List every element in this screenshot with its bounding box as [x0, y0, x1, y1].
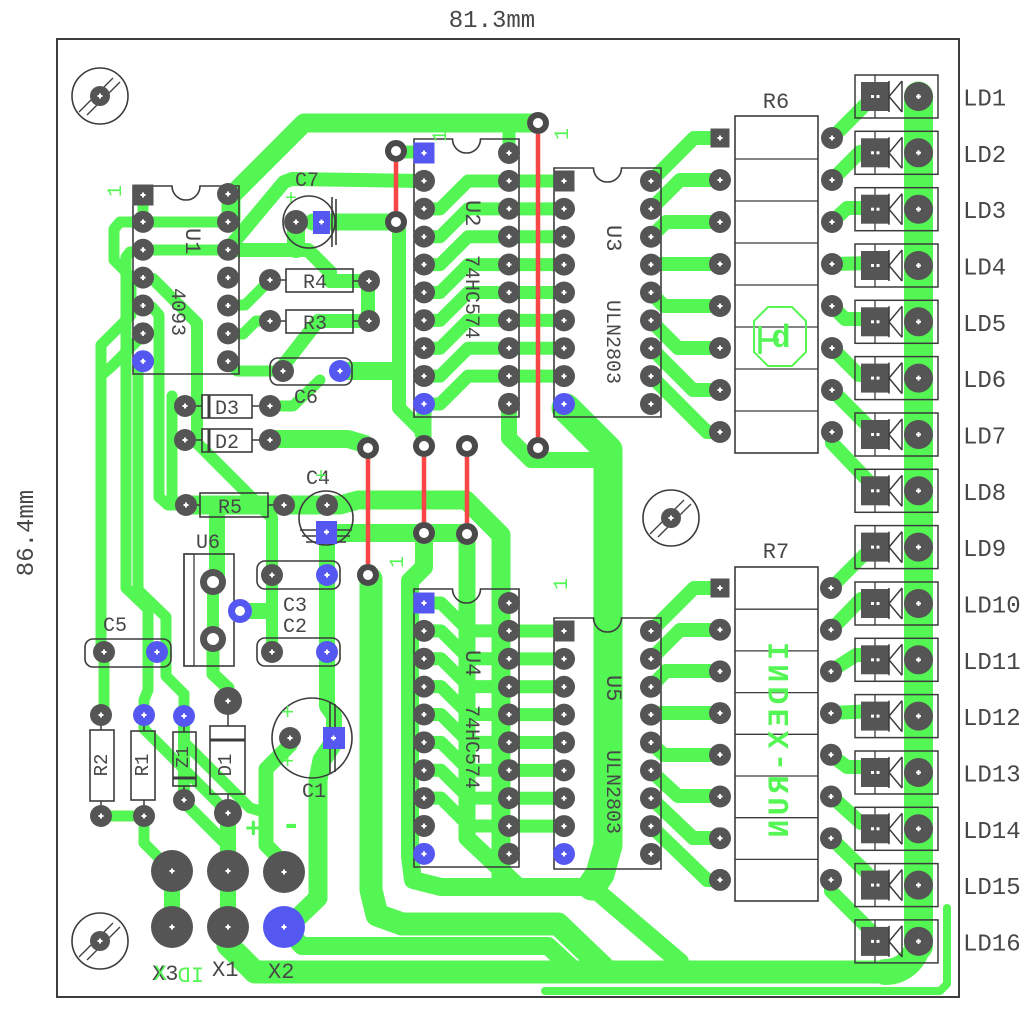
svg-text:C5: C5	[103, 615, 127, 638]
capacitor C4 stripes	[300, 530, 352, 542]
wire U1 row6 diagonal	[104, 335, 143, 373]
U1 pin 1	[133, 185, 154, 206]
jumper end pad	[413, 522, 435, 544]
R6 left pin	[709, 253, 731, 275]
wire U4-U5 row connect	[509, 708, 564, 721]
Z1 pad 2	[173, 789, 195, 811]
U5 pin	[640, 815, 662, 837]
wire D3 left stub	[174, 401, 182, 411]
wire U2 pin20 stub up	[503, 123, 516, 153]
U2 pin	[498, 226, 520, 248]
svg-text:74HC574: 74HC574	[459, 705, 482, 789]
wire U2 internal	[424, 376, 509, 404]
U4 pin	[413, 815, 435, 837]
D3 pad 2	[259, 395, 281, 417]
resistor R3	[286, 310, 353, 333]
R7 cell divider	[735, 775, 818, 777]
U2 pin 1 (blue)	[414, 143, 435, 164]
LED LD16	[855, 920, 938, 963]
C3 pad 2 (blue)	[316, 564, 338, 586]
wire U2-U3 row connect	[509, 230, 564, 243]
R6 cell divider	[735, 158, 818, 160]
wire U2-U3 row connect	[509, 370, 564, 383]
svg-text:LD12: LD12	[963, 706, 1021, 733]
wire U4-U5 row connect	[509, 652, 564, 665]
U2 pin	[498, 198, 520, 220]
U4 pin	[413, 676, 435, 698]
U4 pin	[413, 703, 435, 725]
svg-text:LD9: LD9	[963, 537, 1006, 564]
U2 pin	[498, 281, 520, 303]
wire U4-U5 row connect	[509, 764, 564, 777]
U2 pin	[413, 253, 435, 275]
C6 pad 2 (blue)	[329, 360, 351, 382]
U5 pin	[640, 648, 662, 670]
wire C4 blue chain down	[319, 536, 335, 652]
U2 pin	[498, 365, 520, 387]
R7 right pin	[820, 869, 842, 891]
wire U6 to D1	[213, 640, 228, 700]
wire U3 to R6 fan	[651, 264, 720, 265]
R6 cell divider	[735, 200, 818, 202]
wire U5 to R7 fan	[651, 771, 720, 796]
R7 cell divider	[735, 650, 818, 652]
wire via240 link	[240, 603, 270, 619]
LED LD2	[855, 131, 938, 174]
svg-text:LD15: LD15	[963, 875, 1021, 902]
U1 pin	[217, 183, 239, 205]
R6 right pin	[821, 253, 843, 275]
logo octagon	[754, 307, 806, 366]
wire U3 to R6 fan	[651, 293, 720, 306]
wire U2 internal	[424, 320, 509, 348]
U4 pin	[498, 620, 520, 642]
U1 pin	[132, 239, 154, 261]
svg-text:D1: D1	[215, 754, 237, 777]
R6 left pin	[709, 337, 731, 359]
svg-text:U1: U1	[179, 228, 204, 254]
capacitor C1 stripe	[330, 702, 335, 774]
resistor network R6 outline	[735, 116, 818, 453]
D1 cathode bar	[210, 739, 245, 742]
R7 cell divider	[735, 817, 818, 819]
R7 left pin	[709, 702, 731, 724]
U6 pad 2	[200, 626, 226, 652]
svg-text:LD16: LD16	[963, 931, 1021, 958]
R3 pad 2	[358, 310, 380, 332]
C2 pad 2 (blue)	[316, 641, 338, 663]
wire U2-U3 row connect	[509, 286, 564, 299]
silk INDEX-RUN mirrored	[764, 642, 798, 842]
C7 positive pad (blue)	[313, 211, 330, 234]
wire U4 internal	[424, 631, 509, 659]
U5 pin	[640, 843, 662, 865]
wire C4 blue to ring424	[327, 524, 466, 542]
mounting hole top-left	[72, 68, 128, 124]
Z1 lead lines	[183, 716, 185, 800]
wire U4 internal	[424, 687, 509, 715]
wire Z1 underbody	[178, 716, 190, 798]
capacitor C1 outline	[272, 698, 352, 778]
wire U2 internal	[424, 292, 509, 320]
R6 left pin	[709, 169, 731, 191]
svg-text:4093: 4093	[165, 288, 188, 336]
svg-text:+: +	[315, 466, 327, 489]
U1 pin	[132, 211, 154, 233]
wire jumper (red)	[465, 446, 470, 534]
U3 pin	[553, 337, 575, 359]
wire y179 band U1 to U2	[228, 179, 422, 249]
wire P_D U1 row4 to C3 drop	[143, 279, 272, 652]
wire U3 to R6 fan	[651, 180, 720, 209]
capacitor C3	[257, 561, 340, 589]
R1 pad 2	[133, 805, 155, 827]
wire U2 blue to ring424	[417, 404, 432, 443]
wire R6 to LD8	[832, 432, 874, 487]
R6 right pin	[821, 169, 843, 191]
U3 pin	[640, 198, 662, 220]
U1 pin	[217, 239, 239, 261]
svg-text:1: 1	[551, 578, 574, 590]
D3 pad 1	[174, 395, 196, 417]
wire D3-D2 vertical link	[172, 396, 180, 505]
connector X1 pad b	[207, 906, 249, 948]
wire jumper (red)	[366, 448, 371, 575]
D3 lead lines	[185, 405, 270, 407]
wire U4 internal	[424, 603, 509, 631]
op-amp U1 body	[133, 186, 239, 374]
resistor R4	[286, 269, 353, 292]
R7 right pin	[820, 786, 842, 808]
svg-text:+: +	[285, 188, 297, 211]
wire D2 left stub	[174, 435, 182, 445]
LED LD5	[855, 300, 938, 343]
LED LD10	[855, 582, 938, 625]
U2 pin	[498, 170, 520, 192]
svg-text:1: 1	[105, 185, 128, 197]
wire V_A ring368 down to bus	[371, 579, 606, 970]
wire y222 band C7 to ring	[313, 214, 391, 231]
R3 pad 1	[259, 310, 281, 332]
wire U2 internal	[424, 348, 509, 376]
U4 pin	[498, 843, 520, 865]
svg-text:LD14: LD14	[963, 819, 1021, 846]
wire U5 to R7 fan	[651, 798, 720, 838]
wire y251 band U1 to R4	[228, 250, 367, 281]
wire U6 pads link	[207, 582, 219, 637]
wire R7 to LD13	[831, 755, 875, 767]
connector X2 pad b (blue)	[263, 906, 305, 948]
wire U1 row3 horizontal	[143, 245, 228, 256]
wire R7 to LD14	[831, 796, 875, 823]
wire U2 internal	[424, 265, 509, 293]
wire U2 internal	[424, 181, 509, 209]
svg-text:1: 1	[430, 130, 453, 142]
R7 cell divider	[735, 608, 818, 610]
R1 pad 1 (blue)	[133, 704, 155, 726]
wire Z1 bottom diag to X1	[184, 802, 226, 844]
zener Z1	[173, 732, 196, 786]
D2 lead lines	[185, 439, 270, 441]
R4 lead lines	[270, 280, 369, 281]
R7 cell divider	[735, 858, 818, 860]
U4 pin	[498, 703, 520, 725]
wire blue184 diag	[184, 716, 264, 812]
svg-text:ULN2803: ULN2803	[600, 750, 623, 834]
jumper end pad	[527, 437, 549, 459]
R6 left pin	[709, 295, 731, 317]
U2 pin	[413, 337, 435, 359]
D2 pad 2	[259, 429, 281, 451]
R1 lead lines	[143, 715, 145, 816]
svg-text:LD6: LD6	[963, 368, 1006, 395]
svg-text:INDEX-RUN: INDEX-RUN	[764, 642, 798, 842]
flip-flop U4 body	[414, 589, 519, 867]
svg-text:81.3mm: 81.3mm	[449, 8, 535, 35]
wire R6 to LD6	[832, 348, 874, 375]
C5 pad 2 (blue)	[146, 641, 168, 663]
capacitor C2	[257, 638, 340, 666]
connector X2 pad a	[263, 851, 305, 893]
U3 pin	[553, 254, 575, 276]
wire bottom thin trace	[545, 908, 947, 991]
svg-text:C1: C1	[302, 781, 326, 804]
capacitor C6	[270, 358, 352, 385]
wire D3 left stub2	[172, 401, 181, 411]
R6 right pin	[821, 379, 843, 401]
wire U4 internal	[424, 659, 509, 687]
LED LD14	[855, 807, 938, 850]
wire jumper (red)	[536, 123, 541, 448]
wire W4 ring424 through U4	[410, 535, 680, 962]
U5 pin	[640, 731, 662, 753]
R5 pad 2	[273, 494, 295, 516]
wire C1 minus to X2	[266, 745, 290, 863]
R7 left pin	[709, 786, 731, 808]
R7 right pin	[820, 744, 842, 766]
R3 lead lines	[270, 320, 369, 322]
wire U3 to R6 fan	[651, 348, 720, 390]
D2 pad 1	[174, 429, 196, 451]
wire C5 blue stub	[157, 652, 166, 655]
wire U5 to R7 fan	[651, 588, 720, 631]
diode D2	[202, 429, 252, 452]
wire U2-U3 row connect	[509, 342, 564, 355]
wire U3 to R6 fan	[651, 376, 720, 432]
svg-text:U6: U6	[196, 532, 220, 555]
U4 pin	[413, 787, 435, 809]
LED LD7	[855, 413, 938, 456]
R7 cell divider	[735, 692, 818, 694]
wire U4 internal	[424, 770, 509, 798]
U1 pin	[217, 267, 239, 289]
wire U4-U5 row connect	[509, 736, 564, 749]
diode D2 cathode bar	[208, 429, 211, 452]
U2 pin	[413, 281, 435, 303]
wire U2-U3 row connect	[509, 175, 564, 188]
R6 right pin	[821, 421, 843, 443]
LED LD15	[855, 864, 938, 907]
U1 pin	[217, 350, 239, 372]
D1 pad 2	[214, 799, 242, 827]
U5 pin 1	[554, 621, 575, 642]
wire U4-U5 row connect	[509, 625, 564, 638]
svg-text:1: 1	[387, 556, 410, 568]
jumper end pad	[456, 435, 478, 457]
svg-text:R2: R2	[91, 754, 113, 777]
U3 pin	[553, 365, 575, 387]
U1 pin	[132, 350, 154, 372]
wire U5 to R7 fan	[651, 630, 720, 659]
U2 pin	[413, 309, 435, 331]
wire R6 to LD7	[832, 390, 873, 431]
wire R7 to LD16	[831, 880, 875, 935]
U4 pin	[413, 620, 435, 642]
wire vertical x396	[399, 229, 424, 444]
R7 left pin	[709, 827, 731, 849]
svg-text:+: +	[281, 750, 294, 775]
svg-text:R3: R3	[303, 313, 327, 336]
U2 pin	[413, 365, 435, 387]
svg-text:74HC574: 74HC574	[459, 255, 482, 339]
wire U4-U5 row connect	[509, 792, 564, 805]
jumper end pad	[357, 437, 379, 459]
U2 pin	[498, 309, 520, 331]
wire P_E U1 row5 J-curve	[143, 307, 186, 505]
wire R4 left stub	[230, 280, 270, 305]
jumper end pad	[385, 140, 407, 162]
svg-text:C3: C3	[283, 595, 307, 618]
svg-text:U4: U4	[459, 650, 484, 676]
wire R7 to LD12	[831, 711, 875, 713]
capacitor C4 outline	[299, 491, 353, 545]
U5 pin	[640, 704, 662, 726]
R2 pad 2	[90, 805, 112, 827]
LED LD4	[855, 244, 938, 287]
wire R6 to LD3	[832, 208, 874, 222]
wire X1 vertical	[220, 871, 236, 927]
D1 pad 1	[214, 687, 242, 715]
flip-flop U2 body	[414, 139, 519, 417]
U1 pin	[217, 294, 239, 316]
wire bus corner arc	[885, 938, 919, 972]
wire U5 underbody	[566, 408, 608, 886]
wire chain to C1 blue	[327, 655, 334, 738]
R7 left pin	[709, 869, 731, 891]
wire U3 to R6 fan	[651, 321, 720, 348]
wire U3 to R6 fan	[651, 222, 720, 237]
wire U5 to R7 fan	[651, 743, 720, 755]
U4 pin	[498, 787, 520, 809]
diode D1	[210, 726, 245, 794]
R6 right pin	[821, 337, 843, 359]
svg-text:LD1: LD1	[963, 87, 1006, 114]
resistor R1	[131, 731, 155, 800]
D1 lead lines	[227, 701, 229, 813]
wire bottom bus	[228, 927, 892, 972]
via near U6	[228, 599, 252, 623]
R6 right pin	[821, 295, 843, 317]
R7 pin 1	[711, 579, 730, 598]
wire C7 dark pad stub down	[287, 226, 305, 249]
capacitor C5	[85, 639, 171, 667]
wire ring467 down	[467, 536, 516, 884]
X3 mirrored silk	[154, 962, 167, 987]
U5 pin	[553, 759, 575, 781]
capacitor C7 stripe	[332, 197, 336, 247]
svg-text:D2: D2	[215, 432, 239, 455]
U1 pin	[217, 211, 239, 233]
R6 cell divider	[735, 242, 818, 244]
svg-text:LD7: LD7	[963, 424, 1006, 451]
svg-text:+: +	[281, 701, 294, 726]
wire U2 internal	[424, 237, 509, 265]
R7 right pin	[820, 827, 842, 849]
wire C1 blue down to X2 blue	[290, 742, 334, 925]
svg-text:Z1: Z1	[174, 746, 194, 768]
wire blue144 diag to D1 bottom	[144, 715, 228, 813]
R2 lead lines	[100, 715, 102, 816]
jumper end pad	[527, 112, 549, 134]
U4 pin	[498, 648, 520, 670]
U2 pin	[498, 142, 520, 164]
driver U5 body	[554, 618, 661, 869]
R6 cell divider	[735, 284, 818, 286]
U4 pin	[413, 843, 435, 865]
wire D3 right to C6	[270, 380, 320, 406]
svg-text:U3: U3	[600, 225, 625, 251]
resistor R5	[200, 493, 268, 517]
U2 pin	[498, 337, 520, 359]
regulator U6 outline	[184, 554, 234, 666]
C4 pad 2 (blue)	[316, 521, 337, 544]
svg-text:1: 1	[552, 128, 575, 140]
wire U5 to R7 fan	[651, 671, 720, 687]
wire R3 underbody to C6	[283, 321, 368, 371]
resistor R2	[90, 730, 114, 801]
svg-text:R1: R1	[132, 754, 154, 777]
svg-text:D3: D3	[215, 398, 239, 421]
svg-text:X2: X2	[268, 960, 294, 985]
silk DI mark	[178, 964, 204, 989]
U2 pin	[413, 170, 435, 192]
R7 right pin	[820, 660, 842, 682]
wire X3 vertical	[164, 871, 180, 927]
wire U1 row7 to C6 left	[228, 362, 283, 371]
U2 pin	[413, 226, 435, 248]
LED LD8	[855, 469, 938, 512]
svg-text:U5: U5	[600, 675, 625, 701]
C2 pad 1	[261, 641, 283, 663]
LED LD1	[855, 75, 938, 118]
U4 pin	[413, 648, 435, 670]
wire X2 blue east band	[284, 927, 575, 971]
R6 cell divider	[735, 410, 818, 412]
R7 right pin	[820, 619, 842, 641]
U2 pin	[498, 253, 520, 275]
U3 pin	[553, 393, 575, 415]
wire U2-U3 row connect	[509, 314, 564, 327]
svg-text:C6: C6	[294, 387, 318, 410]
svg-text:LD10: LD10	[963, 593, 1021, 620]
LED LD11	[855, 638, 938, 681]
svg-text:X: X	[154, 962, 167, 987]
mounting hole middle	[643, 490, 699, 546]
jumper end pad	[413, 435, 435, 457]
U6 pad 1	[200, 569, 226, 595]
wire top bus	[231, 123, 538, 220]
svg-text:R6: R6	[763, 90, 789, 115]
